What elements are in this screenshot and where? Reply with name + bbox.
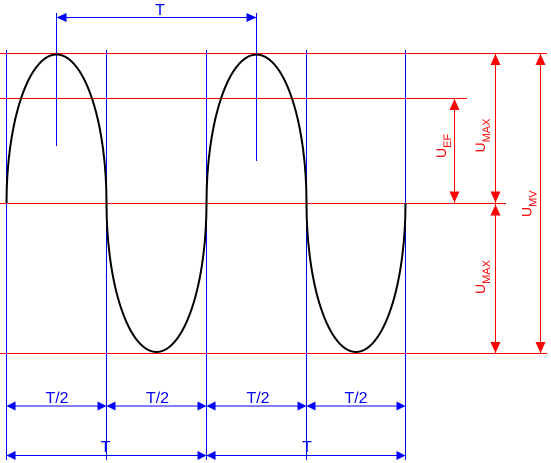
wire: peak 2 extension line x=256 <box>256 13 258 161</box>
dimension T (top), blue <box>57 13 257 22</box>
dimension T/2 #1 (bottom row 1), blue <box>7 402 107 411</box>
svg-text:T/2: T/2 <box>246 390 269 407</box>
wire: vertical grid line x=306 <box>306 50 308 460</box>
dimension Umax lower arrow (red, vertical) <box>491 204 501 354</box>
node: +Umax level line (red) <box>0 53 547 55</box>
svg-text:T/2: T/2 <box>344 390 367 407</box>
dimension T/2 #2, blue <box>107 402 207 411</box>
wire: peak 1 extension line x=56 <box>56 13 58 146</box>
dimension Umax upper arrow (red, vertical) <box>491 54 501 204</box>
wire: vertical grid line x=405 <box>405 50 407 460</box>
svg-text:T/2: T/2 <box>146 390 169 407</box>
node: zero axis line (red) <box>0 203 506 205</box>
node: -Umax level line (red) <box>0 353 547 355</box>
svg-text:T/2: T/2 <box>45 390 68 407</box>
wire: vertical grid line x=206 <box>206 50 208 460</box>
svg-text:T: T <box>302 439 312 456</box>
svg-text:T: T <box>155 2 165 19</box>
dimension Uef arrow (red, vertical) <box>450 99 460 204</box>
dimension T #2 (bottom row 2), blue <box>207 451 406 460</box>
sine waveform (half-ellipse arcs) <box>7 55 406 352</box>
dimension T/2 #4, blue <box>307 402 406 411</box>
svg-text:T: T <box>101 439 111 456</box>
node: Uef level line (red) <box>0 98 467 100</box>
dimension T/2 #3, blue <box>207 402 307 411</box>
wire: vertical grid line x=6 <box>6 50 8 460</box>
dimension Umv arrow (red, vertical) <box>536 54 546 354</box>
wire: vertical grid line x=106 <box>106 50 108 460</box>
dimension T #1 (bottom row 2), blue <box>7 451 207 460</box>
